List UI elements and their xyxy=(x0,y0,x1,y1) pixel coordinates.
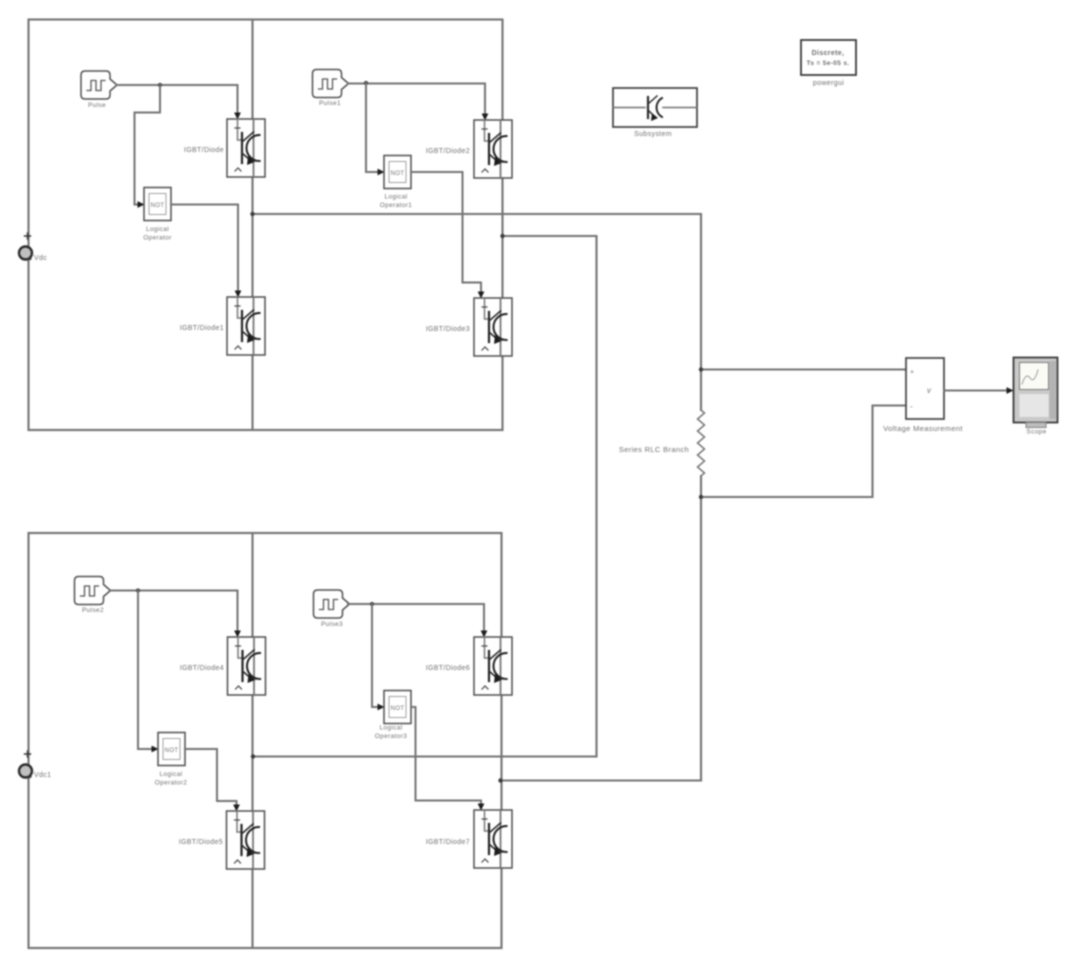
svg-text:Logical: Logical xyxy=(384,194,407,201)
IGBT/Diode Q6 xyxy=(227,811,265,869)
svg-text:IGBT/Diode1: IGBT/Diode1 xyxy=(180,325,224,332)
load line with series RLC branch R1 xyxy=(700,214,702,410)
DC voltage source V2 xyxy=(19,765,32,778)
node C: bridge2 leg1 midpoint junction xyxy=(251,754,255,758)
svg-text:IGBT/Diode7: IGBT/Diode7 xyxy=(426,839,470,846)
node A: bridge1 leg1 midpoint junction xyxy=(250,212,254,216)
wire : left leg bus bridge 1 xyxy=(251,20,253,431)
svg-text:Vdc: Vdc xyxy=(34,255,47,262)
powergui block xyxy=(801,40,856,75)
svg-text:Logical: Logical xyxy=(379,725,402,732)
svg-text:Voltage Measurement: Voltage Measurement xyxy=(883,424,963,433)
svg-text:Subsystem: Subsystem xyxy=(634,131,672,138)
subsystem block (spare IGBT) xyxy=(613,88,697,127)
svg-text:IGBT/Diode: IGBT/Diode xyxy=(184,147,224,154)
svg-text:IGBT/Diode6: IGBT/Diode6 xyxy=(426,665,470,672)
logical operator NOT2 xyxy=(384,156,411,189)
svg-text:-: - xyxy=(910,402,913,411)
pulse generator P2 xyxy=(313,70,349,98)
node: pulse P2 branch junction xyxy=(364,81,368,85)
wire branch to NOT4 xyxy=(372,604,379,707)
node: pulse P3 branch junction xyxy=(136,588,140,592)
wire load top to voltage measurement + xyxy=(701,368,906,370)
node: load top tap junction xyxy=(699,367,703,371)
IGBT/Diode Q8 xyxy=(474,810,512,868)
node: pulse P4 branch junction xyxy=(370,602,374,606)
wire : left leg bus bridge 2 xyxy=(251,533,253,948)
svg-text:v: v xyxy=(927,386,932,395)
wire P2 to IGBT3 gate xyxy=(349,84,486,116)
svg-text:Scope: Scope xyxy=(1026,429,1046,436)
wire branch to NOT1 xyxy=(135,85,161,205)
svg-text:Vdc1: Vdc1 xyxy=(34,772,51,779)
wire P1 to IGBT1 gate xyxy=(117,85,238,114)
svg-text:Logical: Logical xyxy=(159,771,182,778)
svg-text:IGBT/Diode3: IGBT/Diode3 xyxy=(426,326,470,333)
logical operator NOT1 xyxy=(144,188,171,221)
node: pulse P1 branch junction xyxy=(158,83,162,87)
IGBT/Diode Q2 xyxy=(227,297,265,355)
svg-text:Logical: Logical xyxy=(146,226,169,233)
wire branch to NOT3 xyxy=(138,591,153,750)
wire P4 to IGBT7 gate xyxy=(348,604,484,632)
svg-text:Ts = 5e-05 s.: Ts = 5e-05 s. xyxy=(807,60,850,67)
IGBT/Diode Q4 xyxy=(474,298,512,356)
svg-text:IGBT/Diode5: IGBT/Diode5 xyxy=(179,839,223,846)
scope S1 xyxy=(1014,358,1058,423)
voltage measurement U1 xyxy=(906,358,944,419)
pulse generator P4 xyxy=(314,590,350,618)
svg-text:Pulse1: Pulse1 xyxy=(319,100,341,107)
wire node A bridge1 to load top xyxy=(253,213,702,215)
svg-text:powergui: powergui xyxy=(813,80,844,87)
wire NOT2 to IGBT4 gate xyxy=(411,172,481,293)
node B: bridge1 leg2 midpoint junction xyxy=(500,234,504,238)
svg-text:Operator1: Operator1 xyxy=(380,202,412,209)
wire node B bridge1 to node A bridge2 (cascade) xyxy=(253,236,597,757)
svg-text:Operator2: Operator2 xyxy=(155,780,187,787)
svg-text:Discrete,: Discrete, xyxy=(812,50,845,57)
wire NOT4 to IGBT8 gate xyxy=(412,707,481,805)
DC voltage source V1 xyxy=(19,247,32,260)
wire branch to NOT2 xyxy=(366,83,379,172)
wire : DC bus rectangle bridge 1 xyxy=(29,20,503,431)
wire voltage measurement to scope xyxy=(944,390,1008,392)
IGBT/Diode Q3 xyxy=(474,120,512,178)
svg-text:Operator: Operator xyxy=(143,235,172,242)
svg-text:Operator3: Operator3 xyxy=(375,733,407,740)
pulse generator P3 xyxy=(75,577,111,605)
IGBT/Diode Q5 xyxy=(228,637,266,695)
IGBT/Diode Q1 xyxy=(227,119,265,177)
node: load bottom tap junction xyxy=(699,495,703,499)
IGBT/Diode Q7 xyxy=(474,637,512,695)
wire NOT1 to IGBT2 gate xyxy=(171,205,238,293)
svg-text:Pulse3: Pulse3 xyxy=(321,621,343,628)
node D: bridge2 leg2 midpoint junction xyxy=(498,778,502,782)
logical operator NOT3 xyxy=(158,733,185,766)
pulse generator P1 xyxy=(81,71,117,99)
logical operator NOT4 xyxy=(384,691,411,724)
wire : DC bus rectangle bridge 2 xyxy=(29,533,502,948)
svg-text:IGBT/Diode4: IGBT/Diode4 xyxy=(180,665,224,672)
svg-text:Pulse2: Pulse2 xyxy=(82,607,104,614)
wire node B bridge2 to load bottom xyxy=(501,779,702,781)
svg-text:+: + xyxy=(910,369,914,376)
wire P3 to IGBT5 gate xyxy=(111,591,238,633)
wire NOT3 to IGBT6 gate xyxy=(185,749,237,806)
svg-text:Pulse: Pulse xyxy=(88,102,106,109)
svg-text:IGBT/Diode2: IGBT/Diode2 xyxy=(426,148,470,155)
svg-text:Series RLC Branch: Series RLC Branch xyxy=(619,445,689,454)
wire load bottom to voltage measurement - xyxy=(701,406,906,498)
